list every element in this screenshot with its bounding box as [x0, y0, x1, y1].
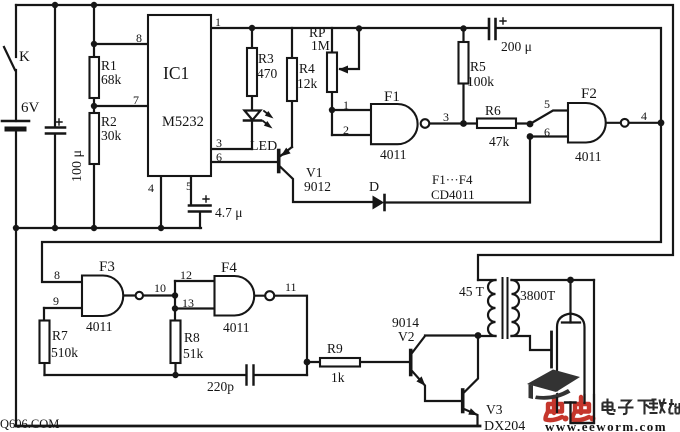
svg-text:8: 8 [54, 268, 60, 282]
svg-text:1: 1 [215, 15, 221, 29]
svg-text:K: K [19, 49, 30, 65]
svg-text:1k: 1k [331, 370, 345, 385]
svg-text:R3: R3 [258, 51, 274, 66]
svg-text:F1···F4: F1···F4 [432, 172, 473, 187]
svg-text:V3: V3 [486, 402, 503, 417]
svg-text:6V: 6V [21, 100, 40, 116]
svg-text:CD4011: CD4011 [431, 187, 475, 202]
svg-text:F1: F1 [384, 89, 400, 105]
svg-text:9: 9 [53, 294, 59, 308]
svg-text:7: 7 [133, 93, 139, 107]
svg-text:4011: 4011 [223, 320, 250, 335]
svg-text:R2: R2 [101, 114, 117, 129]
svg-text:V2: V2 [398, 329, 415, 344]
svg-text:6: 6 [216, 150, 222, 164]
svg-text:100k: 100k [467, 74, 494, 89]
svg-text:3: 3 [216, 136, 222, 150]
svg-text:510k: 510k [51, 345, 78, 360]
svg-text:9012: 9012 [304, 179, 331, 194]
svg-text:R5: R5 [470, 59, 486, 74]
svg-text:F3: F3 [99, 259, 115, 275]
svg-text:3: 3 [443, 110, 449, 124]
svg-text:LED: LED [250, 139, 277, 154]
svg-text:www.eeworm.com: www.eeworm.com [545, 419, 667, 432]
svg-text:8: 8 [136, 31, 142, 45]
svg-text:4: 4 [148, 181, 154, 195]
svg-text:Q606.COM: Q606.COM [0, 417, 59, 431]
svg-text:F4: F4 [221, 260, 237, 276]
svg-text:11: 11 [285, 280, 297, 294]
svg-text:220p: 220p [207, 379, 234, 394]
svg-text:68k: 68k [101, 72, 122, 87]
svg-text:R6: R6 [485, 103, 501, 118]
svg-text:12: 12 [180, 268, 192, 282]
svg-text:R4: R4 [299, 61, 315, 76]
svg-text:4011: 4011 [380, 147, 407, 162]
svg-text:R9: R9 [327, 341, 343, 356]
svg-text:47k: 47k [489, 134, 510, 149]
svg-text:10: 10 [154, 281, 166, 295]
svg-text:6: 6 [544, 125, 550, 139]
svg-text:2: 2 [343, 123, 349, 137]
svg-text:DX204: DX204 [484, 419, 525, 432]
svg-text:R7: R7 [52, 328, 68, 343]
svg-text:F2: F2 [581, 86, 597, 102]
svg-text:4011: 4011 [575, 149, 602, 164]
svg-text:R8: R8 [184, 330, 200, 345]
svg-text:5: 5 [544, 97, 550, 111]
svg-text:13: 13 [182, 296, 194, 310]
svg-text:12k: 12k [297, 76, 318, 91]
svg-text:D: D [369, 180, 379, 195]
svg-text:100 μ: 100 μ [70, 150, 85, 182]
svg-text:4011: 4011 [86, 319, 113, 334]
svg-text:3800T: 3800T [520, 288, 556, 303]
svg-text:1: 1 [343, 98, 349, 112]
svg-text:5: 5 [186, 179, 192, 193]
svg-text:45 T: 45 T [459, 284, 485, 299]
svg-text:470: 470 [257, 66, 278, 81]
svg-text:200 μ: 200 μ [501, 39, 532, 54]
svg-text:4: 4 [641, 109, 647, 123]
svg-text:IC1: IC1 [163, 63, 189, 83]
svg-text:V1: V1 [306, 165, 323, 180]
svg-text:4.7 μ: 4.7 μ [215, 205, 243, 220]
svg-text:1M: 1M [311, 38, 330, 53]
svg-text:30k: 30k [101, 128, 122, 143]
svg-text:R1: R1 [101, 58, 117, 73]
svg-text:M5232: M5232 [162, 114, 204, 130]
svg-text:9014: 9014 [392, 315, 419, 330]
svg-text:51k: 51k [183, 346, 204, 361]
